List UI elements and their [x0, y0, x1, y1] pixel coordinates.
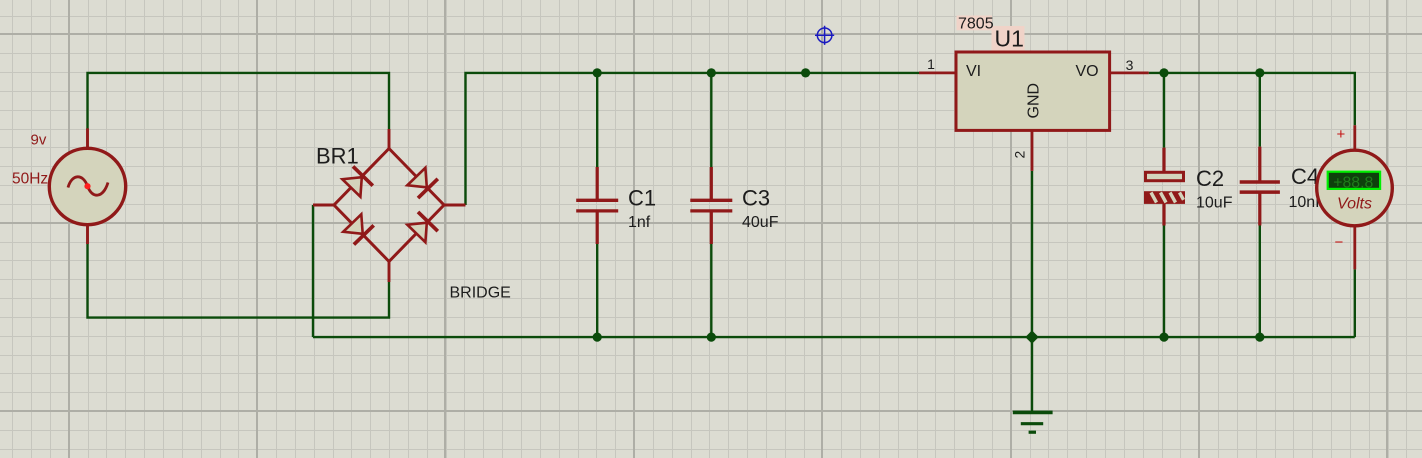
diode D2 (top-right edge): [407, 168, 438, 198]
bridge BR1 diamond: [334, 149, 444, 262]
capacitor C4 plates: [1240, 182, 1280, 192]
junction node: [707, 68, 716, 77]
junction node: [593, 68, 602, 77]
bridge BR1 pins: [313, 129, 466, 282]
ground symbol: [1013, 411, 1053, 415]
svg-text:−: −: [1335, 234, 1344, 251]
wire C1 top: [596, 73, 598, 167]
junction node: [1255, 68, 1264, 77]
U1 7805 body: [956, 52, 1110, 130]
capacitor C3 pins: [710, 167, 713, 244]
svg-text:GND: GND: [1026, 83, 1043, 119]
wire C2 top: [1163, 73, 1165, 148]
wire bridge minus down: [312, 205, 314, 337]
svg-text:3: 3: [1126, 57, 1134, 73]
wire top rail source to bridge: [88, 73, 390, 129]
svg-text:Volts: Volts: [1337, 196, 1372, 213]
svg-text:50Hz: 50Hz: [12, 171, 48, 188]
svg-text:C2: C2: [1196, 166, 1224, 191]
wire voltmeter bottom: [1354, 269, 1356, 337]
capacitor C2 bottom plate (hatched): [1144, 191, 1185, 204]
wire C2 bottom: [1163, 226, 1165, 338]
AC source sine symbol: [68, 177, 108, 195]
capacitor C1 plates: [576, 200, 618, 211]
origin marker: [815, 26, 834, 45]
junction node: [707, 333, 716, 342]
wire bridge plus to regulator: [466, 73, 920, 205]
junction node: [801, 68, 810, 77]
svg-text:VI: VI: [966, 63, 981, 80]
capacitor C3 plates: [690, 200, 732, 211]
junction node: [1159, 68, 1168, 77]
svg-text:2: 2: [1011, 151, 1027, 159]
svg-text:BR1: BR1: [316, 144, 359, 169]
svg-text:C4: C4: [1291, 164, 1319, 189]
wire C3 bottom: [710, 244, 712, 337]
svg-text:10uF: 10uF: [1196, 195, 1233, 212]
U1 pin lines: [919, 73, 1149, 171]
wire C3 top: [710, 73, 712, 167]
wire regulator gnd down: [1031, 171, 1033, 413]
svg-text:C1: C1: [628, 186, 656, 211]
junction node gnd: [1025, 330, 1038, 343]
wire source bottom to bridge bottom: [88, 244, 390, 318]
junction node: [593, 333, 602, 342]
svg-text:1nf: 1nf: [628, 214, 651, 231]
AC source V1 body: [49, 148, 125, 224]
junction node: [1159, 333, 1168, 342]
svg-text:1: 1: [927, 56, 935, 72]
capacitor C2 top plate: [1146, 172, 1184, 180]
svg-text:+88.8: +88.8: [1333, 174, 1373, 191]
wire regulator output rail: [1149, 73, 1355, 125]
wire C1 bottom: [596, 244, 598, 337]
svg-text:BRIDGE: BRIDGE: [450, 285, 511, 302]
wire ground rail: [313, 336, 1355, 338]
svg-text:40uF: 40uF: [742, 214, 779, 231]
capacitor C2 pins: [1162, 148, 1165, 226]
svg-text:VO: VO: [1076, 63, 1099, 80]
AC source V1 pins: [86, 128, 89, 244]
svg-text:9v: 9v: [31, 132, 47, 149]
voltmeter body: [1317, 150, 1393, 226]
svg-text:+: +: [1337, 126, 1346, 143]
voltmeter display: [1328, 172, 1380, 189]
diode D4 (bottom-right edge): [407, 212, 438, 242]
wire C4 bottom: [1259, 226, 1261, 338]
capacitor C4 pins: [1258, 147, 1261, 226]
capacitor C1 pins: [596, 167, 599, 244]
wire C4 top: [1259, 73, 1261, 147]
svg-text:7805: 7805: [958, 16, 994, 33]
svg-text:U1: U1: [995, 26, 1024, 52]
svg-text:C3: C3: [742, 186, 770, 211]
voltmeter pins: [1353, 125, 1356, 269]
AC source origin dot: [84, 183, 90, 189]
diode D1 (left-top edge): [342, 166, 373, 196]
U1 label highlight: [957, 16, 993, 31]
diode D3 (left-bottom edge): [343, 214, 374, 244]
junction node: [1255, 333, 1264, 342]
